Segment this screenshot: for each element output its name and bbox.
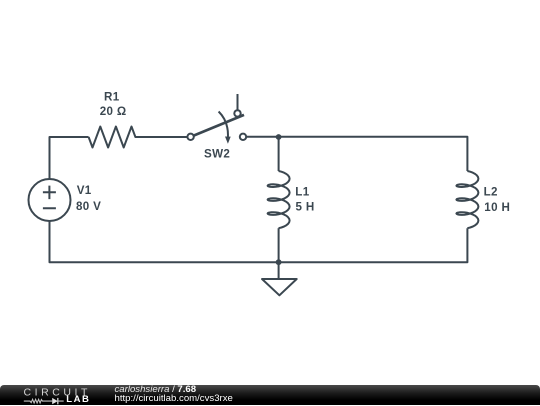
svg-text:5 H: 5 H xyxy=(296,201,315,214)
svg-text:20 Ω: 20 Ω xyxy=(100,105,127,118)
svg-text:SW2: SW2 xyxy=(204,147,230,160)
svg-text:L1: L1 xyxy=(295,186,309,199)
svg-text:80 V: 80 V xyxy=(76,200,101,213)
svg-text:L2: L2 xyxy=(484,186,498,199)
svg-text:R1: R1 xyxy=(104,91,120,104)
svg-text:V1: V1 xyxy=(77,184,92,197)
svg-text:10 H: 10 H xyxy=(484,201,510,214)
svg-text:LAB: LAB xyxy=(66,393,90,404)
